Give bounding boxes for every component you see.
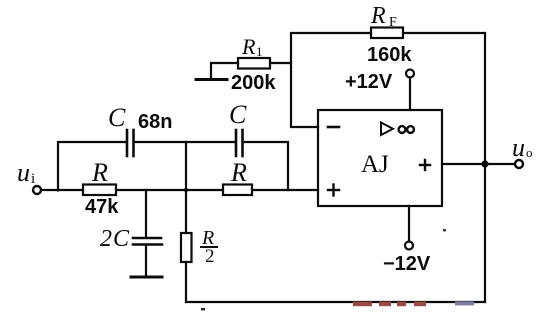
svg-text:2C: 2C <box>100 226 130 252</box>
svg-text:−12V: −12V <box>383 253 431 275</box>
svg-text:R: R <box>241 34 256 59</box>
resistor R1 200k <box>238 58 270 69</box>
op-amp output plus mark <box>420 160 430 170</box>
watermark red dashes <box>353 302 426 307</box>
wire: input to R 47k <box>41 189 83 191</box>
wire: output <box>442 163 515 165</box>
svg-text:F: F <box>389 15 397 30</box>
svg-text:u: u <box>512 133 525 162</box>
node: junction at x58 on main wire <box>56 188 59 191</box>
op-amp infinity symbol <box>399 126 414 133</box>
op-amp U1 box <box>318 110 442 206</box>
svg-text:AJ: AJ <box>361 151 389 178</box>
scan speck near corner <box>201 308 205 310</box>
capacitor C2 <box>236 130 243 156</box>
terminal -12V <box>405 242 413 250</box>
svg-text:i: i <box>31 171 35 187</box>
resistor R (second) <box>223 185 252 196</box>
svg-text:R: R <box>370 3 386 29</box>
wire: R47k to R2 <box>116 189 223 191</box>
svg-text:1: 1 <box>256 44 263 59</box>
svg-text:2: 2 <box>205 246 215 267</box>
svg-text:o: o <box>526 145 533 160</box>
wire: RF right to output rail <box>403 32 485 34</box>
label RF <box>370 3 397 30</box>
svg-text:+12V: +12V <box>345 71 393 93</box>
terminal ui <box>33 186 41 194</box>
wire: -12V pin <box>408 206 410 242</box>
wire: R2 to op-amp + input <box>252 189 318 191</box>
label R1 <box>241 34 263 59</box>
wire: bottom rail <box>186 301 485 303</box>
svg-text:47k: 47k <box>85 196 119 218</box>
svg-text:C: C <box>108 103 126 132</box>
svg-text:68n: 68n <box>138 111 172 133</box>
wire: RF left to vertical drop <box>291 33 371 127</box>
wire: mid vertical from top rail through main wire to R/2 <box>185 142 187 233</box>
capacitor 2C <box>133 190 162 276</box>
node: output junction <box>481 160 488 167</box>
scan speck right of -12V pin <box>443 229 446 231</box>
svg-text:200k: 200k <box>231 72 276 94</box>
svg-text:R: R <box>230 158 247 187</box>
label R/2 fraction <box>200 227 218 267</box>
terminal +12V <box>406 70 414 78</box>
svg-text:R: R <box>91 158 108 187</box>
label uo <box>512 133 533 162</box>
wire: left vertical up to C network <box>58 142 126 190</box>
label ui <box>17 158 35 187</box>
resistor R 47k <box>83 185 116 196</box>
wire: R/2 down to bottom rail <box>185 262 187 302</box>
op-amp plus input mark <box>328 185 339 196</box>
op-amp gain symbol triangle <box>381 123 393 136</box>
svg-text:C: C <box>229 100 247 129</box>
wire: +12V pin <box>409 78 411 111</box>
wire: C2 right to +input drop <box>244 142 289 190</box>
wire: between C1 and C2 on top rail <box>135 141 236 143</box>
op-amp minus input mark <box>328 126 339 129</box>
terminal uo <box>515 160 523 168</box>
svg-text:160k: 160k <box>367 44 412 66</box>
resistor RF 160k <box>371 28 403 39</box>
ground bar under 2C <box>131 276 162 279</box>
node: cross junction at 186,190 <box>184 188 188 192</box>
wire: R1 left to ground <box>211 63 238 78</box>
ground bar for R1 <box>196 78 227 81</box>
wire: R1 right to vertical <box>270 62 291 64</box>
wire: right vertical from bottom rail to RF <box>484 33 486 302</box>
svg-text:u: u <box>17 158 30 187</box>
watermark blue dash <box>455 301 474 305</box>
resistor R/2 <box>181 233 192 262</box>
capacitor C1 (68n) <box>127 130 134 156</box>
